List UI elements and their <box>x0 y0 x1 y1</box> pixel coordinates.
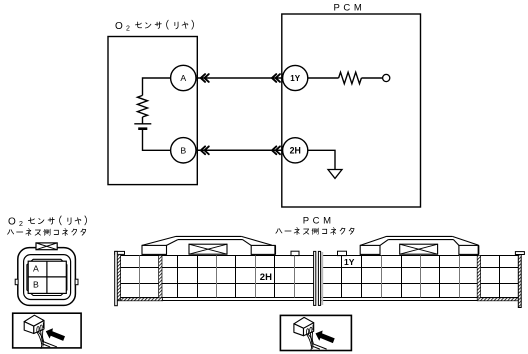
wire 1Y to resistor <box>308 77 339 79</box>
terminal B <box>171 138 196 163</box>
raised housing profile (3D) <box>360 236 478 254</box>
wire 2H to ground <box>308 150 336 169</box>
hatched wall (left) <box>117 254 120 300</box>
svg-text:PCM: PCM <box>303 216 335 227</box>
pin grid 2x2 <box>28 261 66 293</box>
pin 2H <box>283 138 308 163</box>
resistor (PCM internal) <box>339 72 362 84</box>
svg-text:1Y: 1Y <box>344 257 355 267</box>
hatched bottom wall <box>117 298 162 301</box>
svg-text:A: A <box>180 73 186 83</box>
svg-text:2: 2 <box>19 221 23 228</box>
raised housing profile (3D) <box>142 236 275 254</box>
label: PCM harness-side connector <box>276 216 354 235</box>
right side tab <box>75 279 78 285</box>
label: O2 sensor (rear) harness-side connector <box>8 216 87 236</box>
top lock tab with X <box>36 243 57 250</box>
battery cell (sensor element) <box>134 123 151 125</box>
grid verticals <box>342 256 519 298</box>
O2 sensor (rear) box <box>108 37 197 185</box>
svg-text:O: O <box>115 21 123 32</box>
hatched bottom wall <box>477 298 521 301</box>
lock tab with X (left half) <box>189 244 227 254</box>
outer shell <box>18 248 76 306</box>
wire inside sensor: A to resistor <box>143 78 171 95</box>
view icon box (middle) <box>280 315 351 350</box>
PCM box <box>282 14 421 207</box>
label: O2 sensor (rear) box title <box>115 20 194 32</box>
arrows on wire B-2H <box>201 146 209 154</box>
svg-text:B: B <box>33 280 39 290</box>
lock tab with X (right half) <box>400 244 438 254</box>
small latch tab <box>291 251 299 255</box>
svg-text:O: O <box>8 217 16 228</box>
wire battery to B <box>143 129 171 151</box>
left end plate <box>115 251 118 305</box>
arrows on wire A-1Y <box>201 74 209 82</box>
keyed cavity outline <box>27 259 67 295</box>
wire resistor to battery <box>142 117 144 124</box>
left side tab <box>15 279 18 285</box>
grid horizontals <box>318 256 521 301</box>
svg-text:1Y: 1Y <box>290 74 300 83</box>
resistor (zigzag, sensor internal) <box>138 95 148 117</box>
wire B-2H <box>196 149 282 151</box>
svg-text:A: A <box>33 264 39 274</box>
terminal A <box>171 65 196 90</box>
wire A-1Y <box>196 77 282 79</box>
svg-text:2: 2 <box>126 26 130 33</box>
right end plate (hatched) <box>518 255 521 308</box>
right end plate of left half <box>314 251 316 305</box>
left end cap <box>115 251 125 254</box>
PCM harness-side connector (left half) <box>115 236 316 305</box>
O2 sensor harness-side connector (2x2, face view) <box>15 243 78 306</box>
inner shell <box>24 255 71 300</box>
grid verticals <box>121 256 295 298</box>
PCM harness-side connector (right half) <box>318 236 524 307</box>
right end cap <box>515 252 524 255</box>
small latch tab <box>338 251 347 255</box>
svg-text:B: B <box>180 146 186 156</box>
svg-text:2H: 2H <box>290 146 301 156</box>
wire resistor to terminal <box>361 77 382 79</box>
view icon box (left) <box>13 313 81 348</box>
pin 1Y <box>283 65 308 90</box>
hatched divider column <box>477 255 480 297</box>
ground <box>328 170 342 179</box>
open terminal <box>383 74 390 81</box>
left end plate of right half <box>318 251 320 305</box>
svg-text:PCM: PCM <box>334 3 366 14</box>
hatched divider column <box>159 255 162 297</box>
svg-text:2H: 2H <box>260 272 272 283</box>
grid horizontals <box>115 256 316 301</box>
